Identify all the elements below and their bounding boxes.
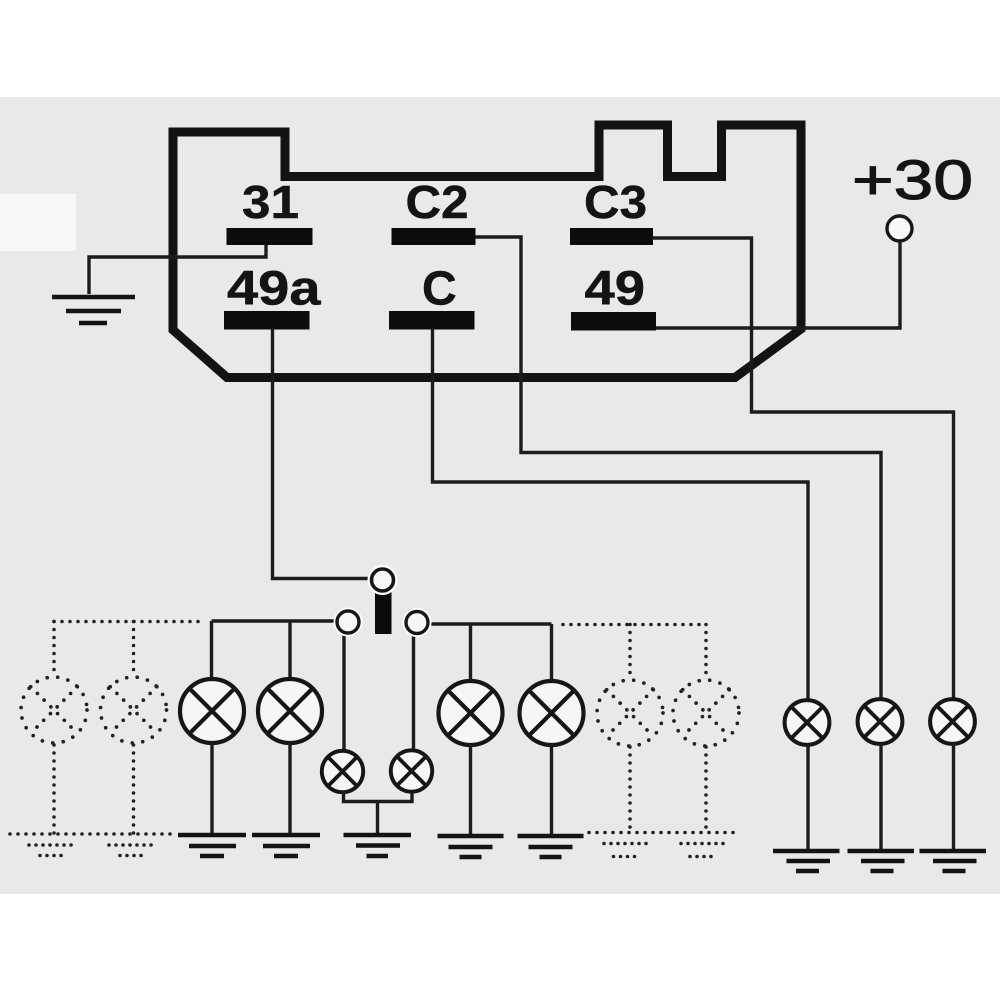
svg-text:+30: +30 — [852, 148, 973, 211]
ground under R1 — [773, 851, 840, 871]
terminal pad 49 — [571, 312, 656, 331]
dotted bus left — [54, 620, 205, 624]
dotted drop ghost lamp G3 — [628, 625, 632, 680]
dotted drop ghost lamp G2 — [132, 622, 136, 677]
wire drop lamp L1 — [210, 621, 213, 680]
dotted drop ghost lamp G1 — [52, 622, 56, 677]
ground under L1 — [178, 835, 246, 856]
svg-text:49a: 49a — [227, 263, 321, 316]
wire lamp L2 to ground — [288, 742, 291, 834]
ghost lamp G2 — [101, 677, 167, 743]
svg-text:C2: C2 — [406, 176, 469, 228]
dotted ground under G3 — [604, 844, 647, 857]
terminal pad 31 — [227, 228, 313, 245]
dotted ghost lamp G3 to ground — [628, 747, 632, 833]
lamp L2 — [258, 679, 322, 743]
lamp L4 — [520, 681, 584, 745]
svg-text:31: 31 — [242, 176, 299, 228]
dotted ghost lamp G4 to ground — [704, 747, 708, 833]
terminal pad C — [389, 311, 475, 330]
wire C to right lamp R1 — [433, 329, 809, 700]
ground under pilot lamps — [344, 835, 412, 856]
wire lamp R2 to ground — [879, 743, 882, 850]
ground under L4 — [518, 836, 584, 857]
dotted ground under G2 — [109, 845, 154, 856]
ghost lamp G3 — [597, 680, 663, 746]
switch contact left — [337, 611, 359, 633]
svg-text:C3: C3 — [584, 176, 647, 228]
wire drop lamp L4 — [550, 624, 553, 682]
switch pivot circle — [372, 569, 394, 591]
dotted drop ghost lamp G4 — [704, 625, 708, 680]
right lamp R2 — [858, 699, 903, 744]
relay body outline — [173, 125, 801, 378]
dotted ground under G1 — [29, 845, 74, 856]
terminal pad C2 — [392, 228, 476, 245]
terminal pad C3 — [570, 228, 653, 245]
pilot lamp P2 — [391, 750, 432, 791]
wire 31 to ground — [89, 245, 266, 294]
right lamp bus solid — [430, 622, 552, 625]
pilot lamp P1 — [322, 751, 363, 792]
ground under R3 — [920, 851, 987, 871]
wire lamp R1 to ground — [806, 744, 809, 851]
wire lamp L1 to ground — [210, 742, 213, 834]
wire right contact to pilot lamp P2 — [412, 633, 415, 752]
dotted bus middle — [563, 623, 706, 627]
wire C2 to right lamp R2 — [476, 237, 882, 700]
ground under L3 — [438, 836, 504, 857]
wire C3 to right lamp R3 — [653, 238, 954, 700]
wire drop lamp L2 — [288, 621, 291, 680]
dotted ground bus middle — [589, 831, 740, 835]
wire left contact to pilot lamp P1 — [342, 632, 345, 752]
wire drop lamp L3 — [469, 624, 472, 682]
left lamp bus solid — [212, 619, 335, 622]
white patch artifact left — [0, 194, 76, 251]
ghost lamp G4 — [673, 680, 739, 746]
switch contact right — [406, 612, 428, 634]
dotted ghost lamp G2 to ground — [132, 745, 136, 834]
pilot lamps joining wire — [344, 791, 413, 833]
terminal pad 49a — [224, 311, 310, 330]
dotted ground bus left — [10, 832, 171, 836]
ground under R2 — [848, 851, 915, 871]
right lamp R3 — [930, 699, 975, 744]
lamp L1 — [180, 679, 244, 743]
svg-text:49: 49 — [585, 263, 646, 316]
ghost lamp G1 — [21, 677, 87, 743]
lamp L3 — [439, 681, 503, 745]
wire lamp L3 to ground — [469, 744, 472, 835]
ground symbol left — [52, 297, 135, 323]
dotted ghost lamp G1 to ground — [52, 745, 56, 834]
ground under L2 — [252, 835, 320, 856]
svg-text:C: C — [422, 263, 457, 316]
wire 49 to +30 — [656, 241, 900, 328]
terminal circle +30 — [887, 216, 912, 241]
switch lever — [375, 592, 392, 634]
dotted ground under G4 — [681, 844, 725, 857]
right lamp R1 — [785, 700, 830, 745]
wire lamp L4 to ground — [550, 744, 553, 835]
wire lamp R3 to ground — [952, 743, 955, 850]
wire 49a to switch pivot — [273, 329, 369, 579]
